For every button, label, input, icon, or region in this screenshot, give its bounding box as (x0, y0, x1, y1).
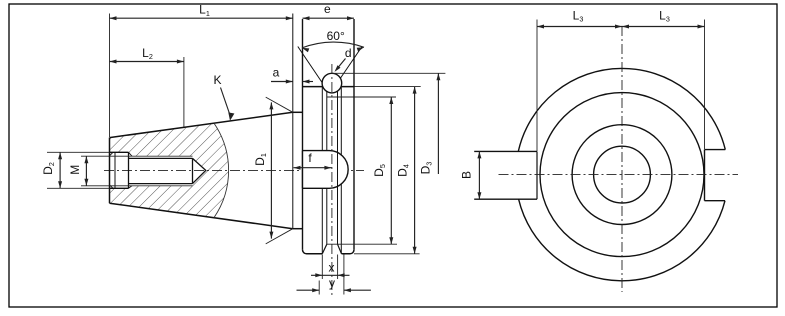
V-groove right flank 60deg (338, 47, 363, 83)
M dimension line (85, 156, 87, 186)
a arrow right-pointing (286, 80, 293, 84)
svg-text:d: d (345, 46, 352, 60)
counterbore bottom (110, 187, 129, 189)
counterbore top (110, 151, 129, 153)
groove root right silhouette (over slot) (337, 91, 339, 244)
flange left face / e extension (302, 19, 304, 250)
a dimension left lead (271, 81, 293, 83)
cone shank section hatching (110, 123, 229, 217)
left slot end (536, 151, 538, 199)
drive slot projection (stadium shape f) (303, 151, 349, 189)
d leader line (336, 59, 345, 70)
groove opening left silhouette (321, 87, 323, 253)
y dimension line right (344, 289, 371, 291)
thread minor bottom (129, 183, 193, 185)
D3 dimension line (half) (437, 73, 439, 174)
B top arrow (477, 151, 481, 158)
cone small end face (109, 138, 111, 204)
x dimension line (311, 274, 350, 276)
f dimension line (294, 167, 332, 169)
L1 left arrow (110, 16, 117, 20)
D4 bottom extension (354, 253, 420, 255)
end view outer circle (interrupted by drive slots) (518, 68, 725, 151)
V-groove left flank 60deg (298, 47, 328, 91)
M top extension (81, 155, 129, 157)
end view horizontal centerline (499, 174, 739, 176)
svg-text:e: e (324, 2, 331, 16)
chamfer bottom-left (110, 185, 114, 189)
gauge ball circle d (322, 73, 342, 93)
D1 bottom arrow (269, 232, 273, 239)
svg-text:a: a (273, 66, 280, 80)
e left arrow (303, 16, 310, 20)
groove vertical centerline (331, 64, 333, 296)
chamfer top-right (129, 152, 133, 156)
groove root left silhouette (326, 91, 328, 244)
svg-text:x: x (329, 261, 335, 275)
flange bottom edge left with fillet (303, 250, 323, 254)
end view inner bore circle (594, 146, 651, 203)
L2 right extension (183, 57, 185, 127)
L3 left extension (536, 20, 538, 152)
svg-text:y: y (329, 276, 335, 290)
section break arc (214, 123, 229, 217)
bottom groove right flank (338, 244, 342, 254)
L3 right extension (704, 20, 706, 150)
thread minor top (129, 157, 193, 159)
end view middle circle (572, 125, 672, 225)
D3 top arrow (436, 73, 440, 80)
chamfer top-left (110, 152, 114, 156)
centerline side view axis (104, 169, 364, 171)
thread major bottom (thin) (129, 185, 193, 187)
x left extension (321, 255, 323, 280)
y right extension (343, 255, 345, 295)
flange bottom edge right with fillet (342, 250, 355, 254)
left slot bottom edge (474, 198, 537, 200)
B dimension line (478, 151, 480, 199)
L2 dimension line (110, 61, 184, 63)
D4 top extension (354, 86, 421, 88)
svg-text:M: M (68, 165, 82, 175)
D5 dimension line (390, 97, 392, 244)
groove opening right silhouette (340, 87, 342, 253)
right slot top edge (705, 149, 726, 151)
y left arrow (outside) (312, 288, 319, 292)
D2 top arrow (58, 152, 62, 159)
a dimension right lead (303, 81, 314, 83)
L3 right arrow (698, 25, 705, 29)
drill point cone (193, 158, 206, 183)
L3 left arrow (537, 25, 544, 29)
D1 oblique extension top (266, 97, 293, 112)
D3 top extension (over ball) (332, 72, 445, 74)
D1 oblique extension bottom (266, 229, 293, 244)
counterbore inner step (114, 152, 116, 188)
L2 right arrow (177, 60, 184, 64)
60deg left arrow (302, 48, 309, 52)
right slot bottom edge (705, 200, 726, 202)
thread major top (thin) (129, 155, 193, 157)
D2 dimension line (59, 152, 61, 188)
d leader arrowhead (335, 65, 341, 72)
svg-text:60°: 60° (327, 29, 345, 43)
pilot cylinder bottom edge (293, 228, 303, 230)
D4 dimension line (414, 87, 416, 254)
D4 bottom arrow (413, 247, 417, 254)
D1 top arrow (269, 102, 273, 109)
left slot top edge (474, 150, 537, 152)
y dimension line left (297, 289, 320, 291)
groove top root / D5 extension (327, 96, 396, 98)
D5 top arrow (389, 97, 393, 104)
gauge plane line / L1 right extension (292, 14, 294, 229)
L2 left arrow (110, 60, 117, 64)
y right arrow (outside) (344, 288, 351, 292)
pilot cylinder top edge (293, 111, 303, 113)
M bottom extension (81, 185, 129, 187)
D1 dimension line (270, 102, 272, 238)
e dimension line (303, 17, 355, 19)
svg-text:K: K (213, 73, 221, 87)
K leader line (221, 88, 230, 115)
svg-text:B: B (460, 171, 474, 179)
60deg right arrow (357, 47, 364, 51)
bottom groove left flank (322, 244, 327, 254)
L3 mid left arrow (622, 25, 629, 29)
L3 right dimension line (622, 26, 705, 28)
flange top edge (303, 86, 355, 88)
a arrow left-pointing (303, 80, 310, 84)
thread end (192, 158, 194, 183)
f right arrow (324, 166, 331, 170)
60deg dimension arc (302, 42, 364, 48)
y left extension (318, 281, 320, 295)
flange face over slot (302, 151, 304, 189)
L3 mid right arrow (615, 25, 622, 29)
x right arrow (outside) (338, 273, 345, 277)
D2 bottom arrow (58, 181, 62, 188)
chamfer bottom-right (129, 186, 133, 189)
D4 top arrow (413, 87, 417, 94)
thread start shoulder (128, 152, 130, 188)
D2 top extension (47, 151, 110, 153)
M top arrow (84, 156, 88, 163)
M bottom arrow (84, 179, 88, 186)
bottom groove root / D5 extension (327, 243, 397, 245)
right slot floor (704, 150, 706, 201)
B bottom arrow (477, 192, 481, 199)
end view vertical centerline (621, 26, 623, 292)
f left arrow (294, 166, 301, 170)
L1/L2 left extension (109, 14, 111, 138)
flange right face / e extension (353, 19, 355, 250)
cone bottom edge (110, 203, 293, 229)
L3 left dimension line (537, 26, 622, 28)
L1 right arrow (286, 16, 293, 20)
e right arrow (347, 16, 354, 20)
K leader arrowhead (228, 112, 234, 120)
x right extension (337, 255, 339, 280)
end view flange circle (540, 93, 704, 257)
cone top edge (110, 112, 293, 137)
x left arrow (outside) (315, 273, 322, 277)
D2 bottom extension (47, 187, 110, 189)
L1 dimension line (110, 17, 293, 19)
D5 bottom arrow (389, 237, 393, 244)
